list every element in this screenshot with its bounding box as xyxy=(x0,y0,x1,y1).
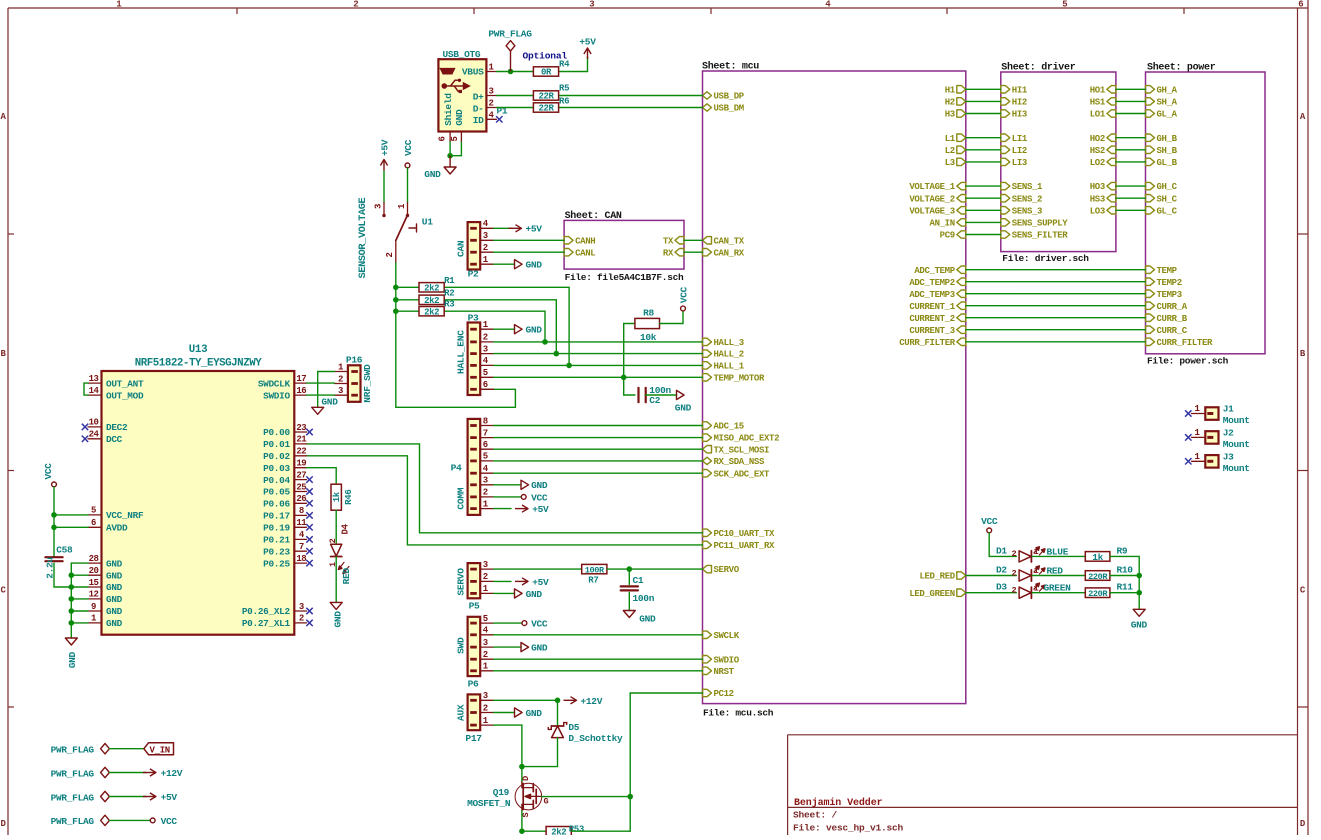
svg-text:26: 26 xyxy=(296,494,306,504)
svg-text:5: 5 xyxy=(483,368,488,378)
power VCC (R8) xyxy=(678,286,689,311)
wire U13 GND bus xyxy=(71,563,88,638)
svg-text:Benjamin Vedder: Benjamin Vedder xyxy=(794,797,883,809)
svg-text:R2: R2 xyxy=(444,288,454,298)
svg-text:R10: R10 xyxy=(1117,565,1134,576)
svg-text:+12V: +12V xyxy=(161,768,183,779)
resistor R10 220R xyxy=(1085,565,1133,582)
svg-text:GND: GND xyxy=(1131,619,1148,630)
wire P17 pin1 to Q19 drain node xyxy=(494,725,522,767)
svg-text:VOLTAGE_3: VOLTAGE_3 xyxy=(909,206,954,216)
svg-text:2: 2 xyxy=(483,243,488,253)
svg-text:GL_A: GL_A xyxy=(1157,110,1178,120)
svg-text:CURRENT_3: CURRENT_3 xyxy=(909,326,954,336)
wires HO/HS/LO driver to power xyxy=(1116,89,1146,210)
svg-text:U1: U1 xyxy=(422,217,433,228)
power VCC (P6 pin5) xyxy=(494,619,548,630)
svg-text:R5: R5 xyxy=(559,84,569,94)
sheet pin USB_DM (mcu) xyxy=(703,104,744,114)
resistor R4 0R xyxy=(533,60,570,78)
svg-text:R11: R11 xyxy=(1117,582,1134,593)
svg-text:15: 15 xyxy=(89,578,99,588)
svg-text:GND: GND xyxy=(106,582,123,593)
sheet pin LI1 (driver) xyxy=(1001,134,1028,144)
svg-text:P0.25: P0.25 xyxy=(263,558,290,569)
svg-text:3: 3 xyxy=(489,87,494,97)
connector P4 COMM xyxy=(451,416,494,515)
sheet pin CANH (CAN) xyxy=(564,236,595,246)
svg-text:220R: 220R xyxy=(1088,572,1108,582)
wire VCC to VCC_NRF AVDD and C58 xyxy=(54,487,88,557)
svg-text:Sheet: CAN: Sheet: CAN xyxy=(565,210,622,222)
junction VBUS xyxy=(508,69,514,75)
wire PC10_UART_TX from U13 P0.01 xyxy=(307,444,703,533)
svg-text:P0.03: P0.03 xyxy=(263,463,290,474)
svg-text:GND: GND xyxy=(526,708,543,719)
wire VCC to D1 xyxy=(989,533,1016,557)
svg-text:D: D xyxy=(1300,819,1306,829)
svg-text:R9: R9 xyxy=(1117,546,1128,557)
wire R53 to gate node xyxy=(571,797,630,832)
sheet pin HS2 (driver) xyxy=(1090,146,1116,156)
sheet pin LO1 (driver) xyxy=(1090,110,1116,120)
svg-text:3: 3 xyxy=(483,344,488,354)
svg-text:HI2: HI2 xyxy=(1012,98,1027,108)
svg-text:USB_DP: USB_DP xyxy=(714,92,745,102)
svg-text:P4: P4 xyxy=(451,462,462,473)
ground GND (P2 pin1) xyxy=(494,260,543,271)
resistor R6 22R xyxy=(533,97,569,114)
svg-text:D3: D3 xyxy=(996,582,1007,593)
power +5V (P4 pin1) xyxy=(494,504,549,515)
wire USB D+ to R5 to USB_DP xyxy=(497,95,703,97)
transistor Q19 MOSFET_N xyxy=(467,776,548,818)
svg-text:L1: L1 xyxy=(945,134,956,144)
svg-text:ADC_TEMP: ADC_TEMP xyxy=(914,266,955,276)
svg-text:File: file5A4C1B7F.sch: File: file5A4C1B7F.sch xyxy=(565,272,684,283)
svg-text:CURRENT_2: CURRENT_2 xyxy=(909,314,954,324)
svg-text:2: 2 xyxy=(483,650,488,660)
sheet pin LI3 (driver) xyxy=(1001,158,1027,168)
svg-text:P0.02: P0.02 xyxy=(263,451,290,462)
sheet pin SENS_SUPPLY (driver) xyxy=(1001,219,1069,229)
wire R7 to SERVO xyxy=(607,568,703,570)
svg-text:P0.27_XL1: P0.27_XL1 xyxy=(242,618,291,629)
sheet pin PC12 (mcu) xyxy=(703,689,734,699)
resistor R7 100R xyxy=(582,564,607,585)
svg-text:RED: RED xyxy=(1047,565,1064,576)
svg-text:GH_A: GH_A xyxy=(1157,85,1178,95)
ic U13 NRF51822-TY_EYSGJNZWY xyxy=(88,344,307,635)
svg-text:R7: R7 xyxy=(588,576,598,586)
sheet pin ADC_TEMP2 (mcu) xyxy=(909,278,965,288)
svg-text:P0.05: P0.05 xyxy=(263,487,290,498)
svg-text:R53: R53 xyxy=(569,825,584,835)
svg-text:2: 2 xyxy=(385,252,395,257)
svg-text:VCC: VCC xyxy=(43,463,54,480)
svg-text:V_IN: V_IN xyxy=(150,745,170,755)
svg-text:LI2: LI2 xyxy=(1012,146,1027,156)
svg-text:RX: RX xyxy=(663,248,674,258)
svg-text:PC11_UART_RX: PC11_UART_RX xyxy=(714,541,776,551)
svg-text:HO2: HO2 xyxy=(1090,134,1105,144)
svg-text:D5: D5 xyxy=(568,722,579,733)
svg-text:3: 3 xyxy=(589,0,594,10)
svg-text:CURRENT_1: CURRENT_1 xyxy=(909,302,955,312)
svg-text:CANH: CANH xyxy=(575,236,595,246)
svg-text:R8: R8 xyxy=(643,307,654,318)
junction R11 gnd rail xyxy=(1136,590,1142,596)
svg-text:P0.26_XL2: P0.26_XL2 xyxy=(242,606,291,617)
svg-text:C: C xyxy=(1300,586,1306,596)
svg-text:SWDIO: SWDIO xyxy=(263,390,290,401)
svg-text:3: 3 xyxy=(483,476,488,486)
svg-text:MOSFET_N: MOSFET_N xyxy=(467,798,511,809)
sheet pin LO3 (driver) xyxy=(1090,206,1116,216)
ground GND (P5 pin1) xyxy=(494,589,543,600)
wire R8 branch xyxy=(624,324,635,396)
svg-text:3: 3 xyxy=(483,691,488,701)
connector J3 Mount xyxy=(1192,452,1250,474)
svg-text:SERVO: SERVO xyxy=(714,565,740,575)
wire SWDIO U13 to P16 xyxy=(307,394,335,396)
sheet CAN box xyxy=(564,210,684,283)
junction Q19 drain node xyxy=(519,764,525,770)
connector P6 SWD xyxy=(456,614,494,690)
svg-text:GREEN: GREEN xyxy=(1044,583,1072,594)
svg-text:AN_IN: AN_IN xyxy=(930,219,955,229)
svg-text:3: 3 xyxy=(374,204,384,209)
sheet pin CURRENT_3 (mcu) xyxy=(909,326,965,336)
wire P6 pin4 SWCLK xyxy=(494,634,703,636)
sheet pin HS1 (driver) xyxy=(1090,98,1116,108)
wire P1 shield/gnd to ground xyxy=(450,142,461,156)
wires ADC_TEMP/CURRENT mcu to power xyxy=(966,270,1146,342)
svg-text:P0.01: P0.01 xyxy=(263,439,290,450)
svg-text:P0.06: P0.06 xyxy=(263,499,290,510)
junction HALL_1 xyxy=(566,363,572,369)
svg-text:OUT_MOD: OUT_MOD xyxy=(106,390,144,401)
no-connect X marks U13 DEC2 DCC xyxy=(82,424,88,442)
svg-text:P6: P6 xyxy=(468,679,479,690)
wire D4 to gnd xyxy=(335,557,337,603)
svg-text:28: 28 xyxy=(89,554,99,564)
switch U1 SPDT xyxy=(374,203,434,264)
no-connect X J2 xyxy=(1185,434,1191,440)
svg-text:SWCLK: SWCLK xyxy=(714,631,740,641)
junction Q19 gate xyxy=(627,794,633,800)
power VCC (P4 pin2) xyxy=(494,492,548,503)
wire CAN TX to mcu CAN_TX xyxy=(684,239,703,241)
svg-text:1: 1 xyxy=(1034,547,1039,557)
svg-text:J1: J1 xyxy=(1223,404,1234,415)
svg-text:2: 2 xyxy=(338,374,343,384)
sheet pin TX_SCL_MOSI (mcu) xyxy=(703,445,770,455)
svg-text:+5V: +5V xyxy=(579,37,596,48)
capacitor C1 100n xyxy=(621,569,655,610)
sheet pin LI2 (driver) xyxy=(1001,146,1027,156)
sheet pin VOLTAGE_3 (mcu) xyxy=(909,206,965,216)
net label SENSOR_VOLTAGE xyxy=(358,197,369,278)
wire USB D- to R6 to USB_DM xyxy=(497,107,703,109)
capacitor C2 100n xyxy=(639,385,672,406)
svg-text:R46: R46 xyxy=(344,490,354,505)
svg-text:Mount: Mount xyxy=(1223,463,1250,474)
sheet pin LO2 (driver) xyxy=(1090,158,1116,168)
sheet pin HI2 (driver) xyxy=(1001,98,1027,108)
svg-text:NRST: NRST xyxy=(714,667,735,677)
svg-text:+5V: +5V xyxy=(526,224,543,235)
svg-text:AUX: AUX xyxy=(456,704,467,721)
svg-text:VCC: VCC xyxy=(161,816,178,827)
svg-text:SH_B: SH_B xyxy=(1157,146,1178,156)
svg-text:SWDIO: SWDIO xyxy=(714,655,740,665)
sheet pin CAN_TX (mcu) xyxy=(703,236,745,246)
hierarchical label V_IN xyxy=(144,743,174,756)
svg-text:11: 11 xyxy=(296,518,307,528)
svg-text:P0.17: P0.17 xyxy=(263,511,290,522)
svg-text:17: 17 xyxy=(296,374,306,384)
power VCC (switch pin1) xyxy=(403,139,414,168)
svg-text:22R: 22R xyxy=(538,104,554,114)
svg-text:2: 2 xyxy=(489,99,494,109)
junction Q19 source xyxy=(519,828,525,834)
sheet pin LED_GREEN (mcu) xyxy=(909,589,965,599)
sheet pin SH_C (power) xyxy=(1146,194,1178,204)
resistor R1 2k2 xyxy=(419,276,455,294)
svg-text:H3: H3 xyxy=(945,110,955,120)
sheet pin MISO_ADC_EXT2 (mcu) xyxy=(703,434,780,444)
svg-text:LO2: LO2 xyxy=(1090,158,1105,168)
power flag PWR_FLAG (+12V) xyxy=(51,767,183,779)
svg-text:22R: 22R xyxy=(538,92,554,102)
resistor R8 10k xyxy=(635,307,660,343)
sheet pin TX (CAN) xyxy=(663,236,684,246)
connector P3 HALL_ENC xyxy=(456,312,494,395)
svg-text:TX_SCL_MOSI: TX_SCL_MOSI xyxy=(714,445,770,455)
svg-text:2: 2 xyxy=(483,333,488,343)
sheet pin TEMP (power) xyxy=(1146,266,1178,276)
svg-text:ADC_TEMP3: ADC_TEMP3 xyxy=(909,290,954,300)
svg-text:R4: R4 xyxy=(559,60,570,70)
sheet pin HALL_2 (mcu) xyxy=(703,350,744,360)
svg-text:100n: 100n xyxy=(633,593,655,604)
svg-text:VCC: VCC xyxy=(531,619,548,630)
wire P2 pin2 to CANL xyxy=(494,251,564,253)
svg-text:HI1: HI1 xyxy=(1012,85,1028,95)
svg-text:100R: 100R xyxy=(585,565,605,575)
svg-text:SENS_SUPPLY: SENS_SUPPLY xyxy=(1012,219,1069,229)
svg-text:J3: J3 xyxy=(1223,452,1234,463)
svg-text:SERVO: SERVO xyxy=(456,568,467,596)
wire LED_RED to D2 xyxy=(966,575,1017,577)
sheet pin TEMP3 (power) xyxy=(1146,290,1182,300)
svg-text:LI1: LI1 xyxy=(1012,134,1028,144)
svg-text:GND: GND xyxy=(106,594,123,605)
svg-text:HALL_3: HALL_3 xyxy=(714,338,744,348)
svg-text:R1: R1 xyxy=(444,276,455,286)
wire R8 to VCC xyxy=(660,311,684,324)
svg-text:P0.00: P0.00 xyxy=(263,427,290,438)
svg-text:25: 25 xyxy=(296,482,306,492)
wire R1 row xyxy=(396,287,569,365)
wire D5 anode to Q19 drain node xyxy=(522,738,558,767)
wire HALL_1 xyxy=(494,364,703,366)
svg-text:TEMP_MOTOR: TEMP_MOTOR xyxy=(714,373,765,383)
svg-text:G: G xyxy=(544,797,549,807)
svg-text:3: 3 xyxy=(483,560,488,570)
wire TEMP_MOTOR xyxy=(494,376,703,378)
wire P4 pin4 SCK_ADC_EXT xyxy=(494,472,703,474)
junction SERVO/C1 xyxy=(627,566,633,572)
svg-text:5: 5 xyxy=(483,614,488,624)
svg-text:Sheet: mcu: Sheet: mcu xyxy=(702,61,759,73)
svg-text:MISO_ADC_EXT2: MISO_ADC_EXT2 xyxy=(714,434,780,444)
svg-text:8: 8 xyxy=(483,416,488,426)
no-connect X on P1 pin 4 ID xyxy=(496,116,502,122)
junction R10 gnd rail xyxy=(1136,573,1142,579)
svg-text:VCC: VCC xyxy=(981,516,998,527)
title block xyxy=(788,735,1298,835)
svg-text:5: 5 xyxy=(91,506,96,516)
svg-text:COMM: COMM xyxy=(456,487,467,509)
wire drain node to Q19 xyxy=(521,767,523,782)
sheet pin CANL (CAN) xyxy=(564,248,595,258)
svg-text:SENSOR_VOLTAGE: SENSOR_VOLTAGE xyxy=(358,197,369,278)
svg-text:GH_C: GH_C xyxy=(1157,182,1178,192)
svg-text:10: 10 xyxy=(89,418,99,428)
sheet pin CURRENT_1 (mcu) xyxy=(909,302,965,312)
svg-text:+5V: +5V xyxy=(161,792,178,803)
wire LED_GREEN to D3 xyxy=(966,592,1017,594)
svg-text:SH_C: SH_C xyxy=(1157,194,1178,204)
svg-text:+5V: +5V xyxy=(532,504,549,515)
junction TEMP_MOTOR xyxy=(621,375,627,381)
diode D5 D_Schottky xyxy=(548,700,623,744)
wires VOLTAGE/AN_IN/PC9 mcu to driver xyxy=(966,186,1001,234)
svg-text:NRF51822-TY_EYSGJNZWY: NRF51822-TY_EYSGJNZWY xyxy=(135,357,263,369)
svg-text:CURR_C: CURR_C xyxy=(1157,326,1188,336)
svg-text:GND: GND xyxy=(526,260,543,271)
svg-text:GND: GND xyxy=(454,109,465,126)
svg-text:P16: P16 xyxy=(346,354,363,365)
svg-text:H1: H1 xyxy=(945,85,956,95)
svg-text:3: 3 xyxy=(299,602,304,612)
sheet pin ADC_15 (mcu) xyxy=(703,422,744,432)
power +5V (switch pin3) xyxy=(379,139,390,170)
svg-text:6: 6 xyxy=(91,518,96,528)
sheet pin VOLTAGE_1 (mcu) xyxy=(909,182,965,192)
svg-text:HALL_1: HALL_1 xyxy=(714,362,745,372)
sheet pin HI3 (driver) xyxy=(1001,110,1027,120)
wire P17 pin3 to +12V and D5 xyxy=(494,699,558,701)
sheet pin GL_A (power) xyxy=(1146,110,1178,120)
sheet driver box xyxy=(1001,62,1116,265)
svg-text:CURR_B: CURR_B xyxy=(1157,314,1188,324)
svg-text:13: 13 xyxy=(89,374,99,384)
led D4 RED xyxy=(328,523,352,584)
sheet pin HALL_3 (mcu) xyxy=(703,338,744,348)
sheet pin HO2 (driver) xyxy=(1090,134,1116,144)
svg-text:ADC_15: ADC_15 xyxy=(714,422,744,432)
svg-text:HI3: HI3 xyxy=(1012,110,1027,120)
svg-text:P3: P3 xyxy=(468,312,479,323)
svg-text:2: 2 xyxy=(1012,586,1017,596)
junctions sensor voltage at R1 R2 R3 xyxy=(393,285,399,315)
svg-text:2: 2 xyxy=(1012,568,1017,578)
svg-text:OUT_ANT: OUT_ANT xyxy=(106,378,144,389)
power +5V (P2 pin4) xyxy=(494,224,543,235)
led D1 BLUE xyxy=(996,546,1069,563)
sheet pin HO1 (driver) xyxy=(1090,85,1116,95)
sheet pin NRST (mcu) xyxy=(703,667,735,677)
svg-text:2: 2 xyxy=(328,538,338,543)
svg-text:VOLTAGE_1: VOLTAGE_1 xyxy=(909,182,955,192)
sheet pin SENS_3 (driver) xyxy=(1001,206,1042,216)
svg-text:GND: GND xyxy=(424,169,441,180)
svg-text:DEC2: DEC2 xyxy=(106,422,128,433)
sheet pin GH_A (power) xyxy=(1146,85,1178,95)
wires H1-H3 L1-L3 mcu to driver xyxy=(966,89,1001,162)
wire P6 pin2 SWDIO xyxy=(494,658,703,660)
svg-text:5: 5 xyxy=(1062,0,1067,10)
svg-text:22: 22 xyxy=(296,447,306,457)
connector P2 CAN xyxy=(456,219,494,279)
svg-text:HS2: HS2 xyxy=(1090,146,1105,156)
svg-text:D4: D4 xyxy=(341,523,351,534)
svg-text:2k2: 2k2 xyxy=(424,284,439,294)
svg-text:P5: P5 xyxy=(469,600,480,611)
svg-text:2: 2 xyxy=(353,0,358,10)
svg-text:3: 3 xyxy=(483,638,488,648)
wire Q19 source to R53 xyxy=(522,811,546,831)
wire C2 to gnd xyxy=(646,394,677,396)
svg-text:PWR_FLAG: PWR_FLAG xyxy=(51,792,95,803)
svg-text:RX_SDA_NSS: RX_SDA_NSS xyxy=(714,457,765,467)
junction HALL_3 xyxy=(542,339,548,345)
svg-text:R3: R3 xyxy=(444,300,454,310)
svg-text:SCK_ADC_EXT: SCK_ADC_EXT xyxy=(714,469,771,479)
sheet mcu box xyxy=(702,61,966,719)
svg-text:GND: GND xyxy=(675,402,692,413)
svg-text:Sheet: driver: Sheet: driver xyxy=(1001,62,1075,74)
junction VCC_NRF xyxy=(51,512,57,530)
wire P4 pin6 TX_SCL_MOSI xyxy=(494,448,703,450)
sheet pin TEMP_MOTOR (mcu) xyxy=(703,373,765,383)
svg-text:VCC: VCC xyxy=(403,139,414,156)
connector P5 SERVO xyxy=(456,560,494,611)
svg-text:H2: H2 xyxy=(945,98,955,108)
svg-text:PWR_FLAG: PWR_FLAG xyxy=(51,768,95,779)
sheet pin GL_C (power) xyxy=(1146,206,1178,216)
svg-text:Shield: Shield xyxy=(443,93,454,126)
svg-text:TX: TX xyxy=(663,236,674,246)
svg-text:SENS_3: SENS_3 xyxy=(1012,206,1042,216)
svg-text:D: D xyxy=(0,819,6,829)
svg-text:TEMP2: TEMP2 xyxy=(1157,278,1182,288)
sheet pin SCK_ADC_EXT (mcu) xyxy=(703,469,771,479)
svg-text:A: A xyxy=(1300,112,1306,122)
resistor R5 22R xyxy=(533,84,569,102)
connector P16 NRF_SWD xyxy=(335,354,374,402)
svg-text:GND: GND xyxy=(531,643,548,654)
connector J1 Mount xyxy=(1192,404,1250,426)
sheet pin CURR_C (power) xyxy=(1146,326,1188,336)
svg-text:L2: L2 xyxy=(945,146,955,156)
svg-text:7: 7 xyxy=(299,542,304,552)
svg-text:SENS_1: SENS_1 xyxy=(1012,182,1043,192)
sheet pin H2 (mcu) xyxy=(945,98,966,108)
